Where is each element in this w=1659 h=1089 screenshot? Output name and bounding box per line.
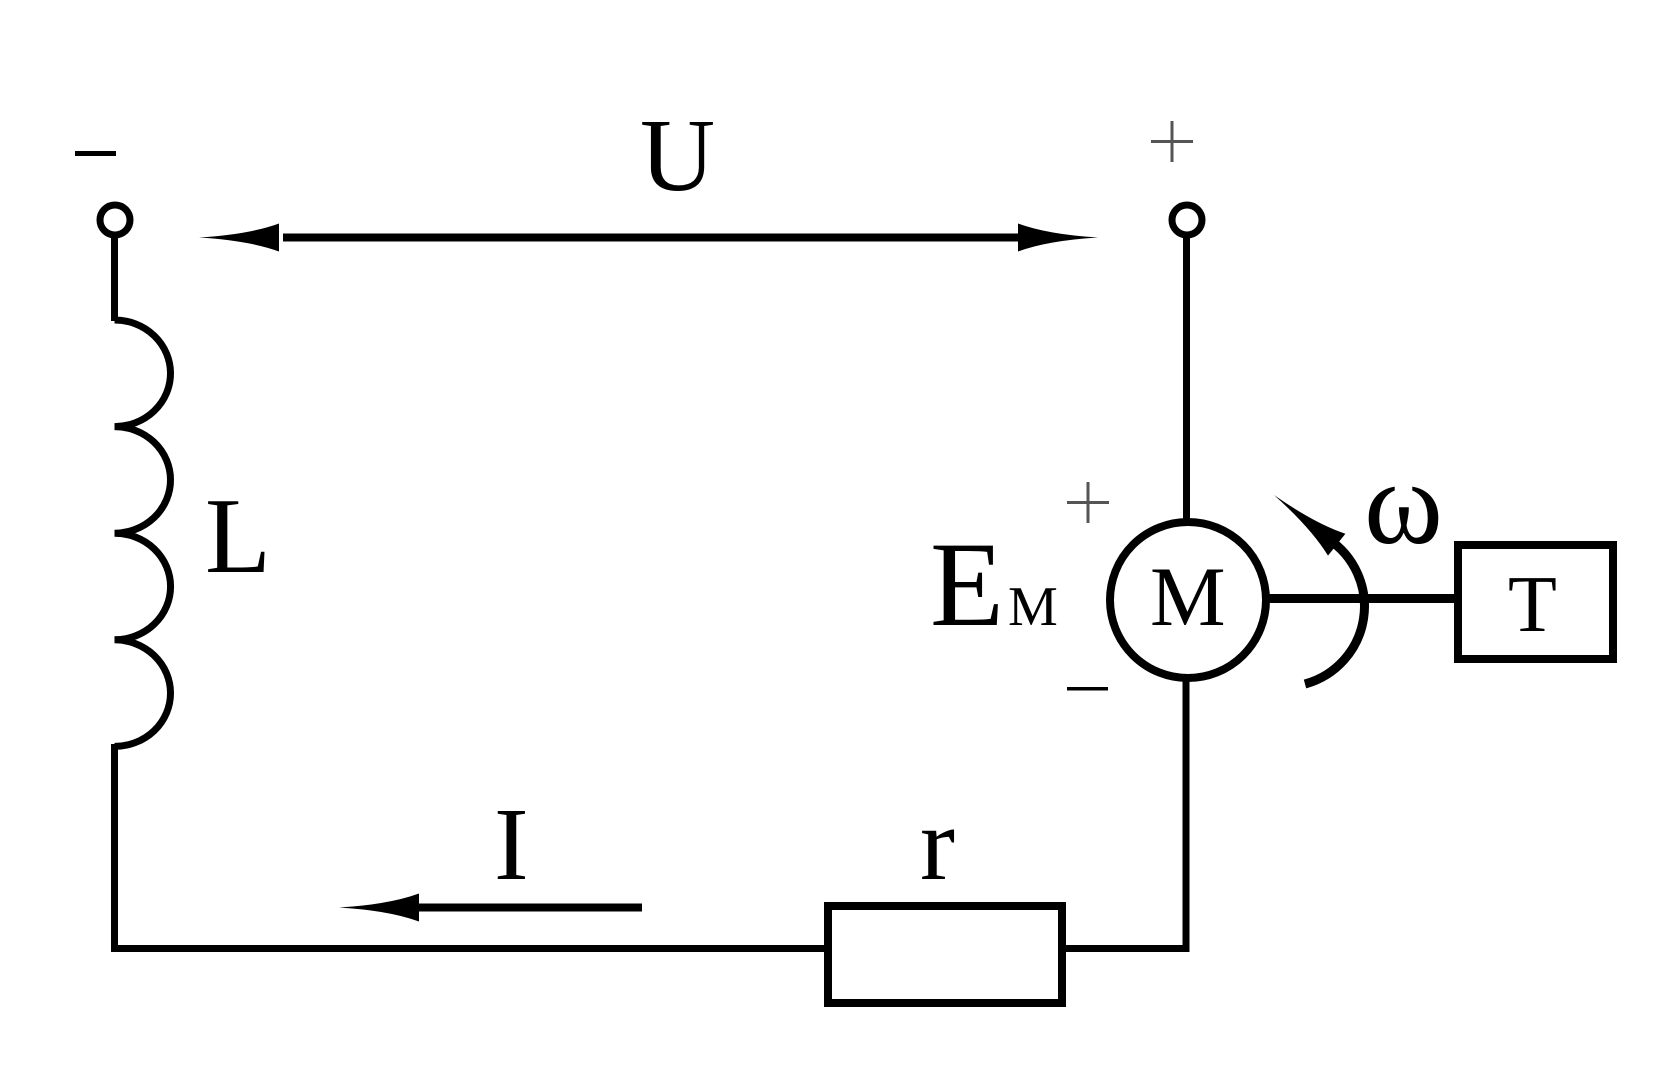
wire from resistor to bottom-right corner and up to motor [1062, 681, 1186, 949]
svg-text:L: L [205, 477, 271, 596]
motor shaft to load [1265, 594, 1458, 603]
plus polarity sign at right terminal [1151, 121, 1193, 162]
svg-text:U: U [640, 98, 715, 213]
rotation arc omega [1305, 539, 1364, 684]
terminal (left, negative) [100, 205, 130, 235]
svg-text:E: E [930, 518, 1004, 652]
svg-text:r: r [920, 785, 955, 902]
wire from inductor down to bottom-left corner [115, 744, 825, 949]
terminal (right, positive) [1172, 205, 1202, 235]
wire from motor top to right terminal [1183, 237, 1190, 523]
load box T [1458, 545, 1613, 659]
minus polarity below motor [1067, 687, 1108, 691]
current arrow I (pointing left) [416, 904, 642, 912]
right arrowhead of U arrow [1018, 224, 1098, 252]
voltage arrow U (double-headed) [283, 234, 1018, 242]
motor M [1110, 522, 1266, 678]
arrowhead of current arrow [339, 894, 419, 922]
left arrowhead of U arrow [199, 224, 279, 252]
plus polarity above motor [1067, 482, 1109, 523]
resistor r [828, 906, 1062, 1003]
minus polarity sign at left terminal [75, 151, 116, 156]
svg-text:M: M [1008, 576, 1058, 638]
svg-text:M: M [1150, 550, 1226, 644]
svg-text:I: I [494, 787, 529, 902]
wire from left terminal down to inductor [111, 236, 118, 321]
svg-text:T: T [1508, 561, 1557, 649]
svg-text:ω: ω [1364, 436, 1443, 569]
arrowhead of rotation arc [1265, 484, 1345, 556]
inductor L (4 loops) [115, 320, 171, 746]
